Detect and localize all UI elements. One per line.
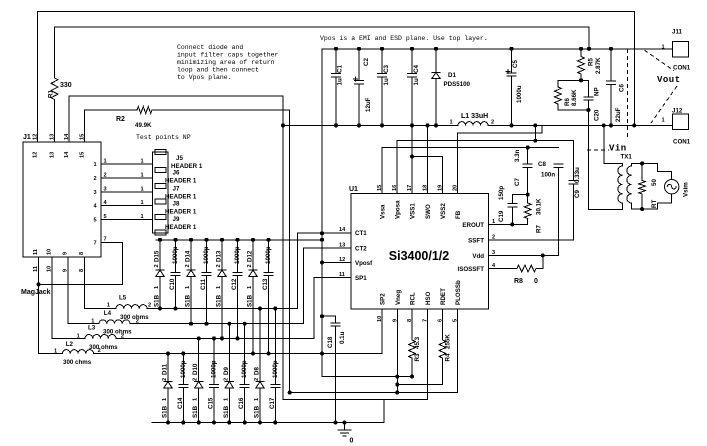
wire R2 down corridor to PLOSSb row <box>152 110 290 393</box>
svg-text:HEADER 1: HEADER 1 <box>165 224 197 231</box>
svg-text:1: 1 <box>94 162 97 168</box>
note: connect diode text <box>177 44 279 81</box>
wire switch node bus <box>283 124 458 126</box>
svg-text:2: 2 <box>193 378 199 381</box>
svg-text:14: 14 <box>339 227 346 233</box>
capacitor C15 1000p <box>208 338 219 422</box>
resistor RT 50 <box>639 163 658 209</box>
svg-text:HSO: HSO <box>425 291 432 305</box>
svg-text:0: 0 <box>534 278 538 285</box>
svg-text:Si3400/1/2: Si3400/1/2 <box>389 249 450 263</box>
capacitor C16 1000p <box>238 324 249 423</box>
wire TX1 primary bottom <box>588 203 622 210</box>
svg-text:R6: R6 <box>564 98 571 106</box>
connector J5 HEADER 1 <box>153 150 203 234</box>
svg-text:1: 1 <box>450 120 453 126</box>
wire R5 bottom node <box>558 79 589 81</box>
wire J1 pin 4 to header <box>101 205 153 207</box>
svg-text:1: 1 <box>77 334 80 340</box>
diode D13 S1B <box>216 240 227 339</box>
inductor L4 300 ohms <box>68 257 149 325</box>
svg-text:C20: C20 <box>594 109 601 121</box>
wire J1 pin 3 to header <box>101 191 153 193</box>
wire J1 pin 1 to header <box>101 163 153 165</box>
svg-text:C6: C6 <box>619 84 626 92</box>
capacitor C1 1u <box>332 49 344 126</box>
svg-text:HEADER 1: HEADER 1 <box>165 209 197 216</box>
capacitor C14 1000p <box>177 354 188 423</box>
node L3 line taps <box>197 336 201 340</box>
svg-text:S1B: S1B <box>162 405 169 418</box>
svg-text:2: 2 <box>185 264 191 267</box>
svg-text:9: 9 <box>63 252 69 255</box>
resistor R7 30.1K <box>524 195 542 233</box>
wire diode top row lower bus <box>147 308 298 310</box>
svg-text:30.1K: 30.1K <box>536 198 543 215</box>
svg-text:TX1: TX1 <box>621 154 633 161</box>
svg-text:1: 1 <box>162 398 168 401</box>
svg-text:300 ohms: 300 ohms <box>89 344 118 351</box>
svg-text:14: 14 <box>64 151 70 158</box>
svg-text:100n: 100n <box>541 172 555 179</box>
svg-text:1: 1 <box>141 214 144 220</box>
svg-text:NP: NP <box>594 87 601 96</box>
wire J1 pin14 down corridor to HSO <box>69 96 428 400</box>
svg-text:R1: R1 <box>48 90 55 98</box>
svg-text:12uF: 12uF <box>365 97 372 112</box>
svg-text:J7: J7 <box>173 186 180 193</box>
svg-text:C4: C4 <box>413 65 420 73</box>
wire diode bottom row upper bus (SP2) <box>94 353 383 355</box>
inductor L5 300 ohms <box>85 257 152 309</box>
svg-text:U1: U1 <box>349 186 358 193</box>
connector J12 CON1 <box>662 108 691 146</box>
svg-text:PDS5100: PDS5100 <box>444 81 471 88</box>
svg-text:C7: C7 <box>514 178 521 186</box>
svg-text:2: 2 <box>491 120 494 126</box>
capacitor C8 100n <box>538 161 563 255</box>
op-amp U1 Si3400/1/2 <box>339 185 496 322</box>
svg-text:J6: J6 <box>173 170 180 177</box>
svg-text:SWO: SWO <box>425 204 432 219</box>
wire ground bus <box>152 400 384 423</box>
svg-text:150p: 150p <box>498 186 505 200</box>
svg-text:1: 1 <box>141 159 144 165</box>
svg-text:13: 13 <box>50 152 56 158</box>
capacitor C6 22uF <box>607 49 626 126</box>
diode D12 S1B <box>247 240 258 354</box>
wire EROUT pin1 <box>489 223 528 225</box>
svg-text:1000p: 1000p <box>180 360 187 378</box>
connector J1 MagJack <box>23 133 101 272</box>
svg-text:300 chms: 300 chms <box>63 359 92 366</box>
svg-text:1: 1 <box>193 398 199 401</box>
svg-text:1000p: 1000p <box>203 246 210 264</box>
inductor L3 300 ohms <box>52 257 132 340</box>
capacitor C13 1000p <box>262 240 273 354</box>
svg-text:1000p: 1000p <box>234 246 241 264</box>
connector J9 HEADER 1 <box>155 214 197 231</box>
svg-text:MagJack: MagJack <box>21 289 51 296</box>
wire PLOSSb row <box>290 392 458 394</box>
wire HSO stub <box>427 309 429 400</box>
capacitor C5 1000u <box>506 49 523 126</box>
svg-text:0.33u: 0.33u <box>574 167 581 183</box>
wire Vneg row extension to R3 <box>397 376 412 378</box>
svg-text:D8: D8 <box>254 367 261 375</box>
svg-text:1: 1 <box>91 319 94 325</box>
svg-text:8.66K: 8.66K <box>571 89 578 106</box>
capacitor C3 1u <box>378 49 391 126</box>
svg-text:C15: C15 <box>208 397 215 409</box>
svg-text:45.3: 45.3 <box>414 336 421 349</box>
svg-text:Vout: Vout <box>657 75 681 85</box>
diode D8 S1B <box>254 309 265 423</box>
svg-text:1000p: 1000p <box>211 360 218 378</box>
wire TX1 secondary top <box>632 163 658 166</box>
svg-text:J9: J9 <box>173 216 180 223</box>
resistor R6 8.66K <box>555 80 578 110</box>
capacitor C18 0.1u <box>327 316 346 422</box>
svg-text:5: 5 <box>104 214 107 220</box>
svg-text:2: 2 <box>148 303 151 309</box>
svg-text:Vneg: Vneg <box>395 290 402 305</box>
svg-text:2: 2 <box>94 176 97 182</box>
svg-text:PLOSSb: PLOSSb <box>455 280 462 305</box>
svg-text:L5: L5 <box>119 295 127 302</box>
wire L4 line to CT2 riser <box>130 323 304 325</box>
connector J6 HEADER 1 <box>155 167 197 184</box>
header J9 bottom pin pad <box>155 230 166 235</box>
wire Vpos vertical to Vposf <box>322 49 397 377</box>
svg-text:2: 2 <box>216 264 222 267</box>
svg-text:C16: C16 <box>238 397 245 409</box>
svg-text:RCL: RCL <box>410 292 417 305</box>
connector J8 HEADER 1 <box>155 199 197 216</box>
wire Vneg down to PLOSSb row <box>396 377 398 393</box>
svg-text:2: 2 <box>247 264 253 267</box>
svg-text:2: 2 <box>254 378 260 381</box>
svg-text:C3: C3 <box>383 65 390 73</box>
svg-text:1: 1 <box>662 118 665 124</box>
svg-text:1: 1 <box>104 159 107 165</box>
svg-text:S1B: S1B <box>154 294 161 307</box>
svg-text:J11: J11 <box>672 29 683 36</box>
svg-text:2: 2 <box>223 378 229 381</box>
svg-text:Vin: Vin <box>609 144 627 154</box>
wire TX1 secondary bottom <box>632 203 658 209</box>
svg-text:1000p: 1000p <box>272 360 279 378</box>
capacitor C19 150p <box>498 186 528 225</box>
wire MagJack branch <box>39 283 123 285</box>
svg-text:1000p: 1000p <box>172 246 179 264</box>
capacitor C2 12uF <box>353 49 372 126</box>
node MagJack <box>37 282 41 286</box>
svg-text:0.1u: 0.1u <box>339 331 346 344</box>
wire SP2 pin10 <box>381 309 383 354</box>
svg-text:7: 7 <box>423 319 429 322</box>
svg-text:R7: R7 <box>536 225 543 233</box>
svg-text:1000u: 1000u <box>516 85 523 103</box>
diode D15 S1B <box>154 240 165 309</box>
wire VSS1 pin17 <box>411 125 413 193</box>
capacitor C9 0.33u <box>569 167 581 240</box>
svg-text:50: 50 <box>651 179 658 186</box>
svg-text:J5: J5 <box>176 155 183 162</box>
net label Vout with dashed pointers <box>645 50 681 123</box>
svg-text:L2: L2 <box>66 341 74 348</box>
svg-text:minimizing area of return: minimizing area of return <box>177 59 275 66</box>
ground 0 <box>338 421 354 445</box>
svg-text:EROUT: EROUT <box>462 222 484 229</box>
svg-text:11: 11 <box>33 249 39 255</box>
svg-text:22uF: 22uF <box>615 107 622 122</box>
svg-text:Vssa: Vssa <box>380 204 387 219</box>
svg-text:1: 1 <box>141 173 144 179</box>
svg-text:1: 1 <box>216 286 222 289</box>
wire Vposf pin12 <box>322 262 351 264</box>
connector J11 CON1 <box>662 29 691 72</box>
capacitor C11 1000p <box>200 240 211 324</box>
svg-text:10: 10 <box>47 249 53 255</box>
wire SSFT pin2 <box>489 239 574 241</box>
wire L1 out to J12 <box>488 124 672 126</box>
svg-text:L1 33uH: L1 33uH <box>461 113 488 120</box>
svg-text:D12: D12 <box>247 250 254 262</box>
svg-text:49.9K: 49.9K <box>135 122 152 129</box>
svg-text:12: 12 <box>33 152 39 158</box>
capacitor C10 1000p <box>169 240 180 309</box>
wire Vposa pin16 <box>397 141 573 194</box>
capacitor C17 1000p <box>269 309 280 423</box>
svg-text:1: 1 <box>223 398 229 401</box>
svg-text:R3: R3 <box>414 353 421 361</box>
wire J1 pin7 down to MagJack row <box>101 243 123 285</box>
svg-text:D15: D15 <box>154 250 161 262</box>
svg-text:C9: C9 <box>574 190 581 198</box>
svg-text:1: 1 <box>141 186 144 192</box>
svg-text:C8: C8 <box>538 161 546 168</box>
connector J7 HEADER 1 <box>155 183 197 200</box>
svg-text:1: 1 <box>247 286 253 289</box>
svg-text:C17: C17 <box>269 397 276 409</box>
svg-text:4: 4 <box>94 204 98 210</box>
diode D11 S1B <box>162 354 173 423</box>
svg-text:Vposa: Vposa <box>395 200 402 219</box>
svg-text:D14: D14 <box>185 250 192 262</box>
svg-text:C10: C10 <box>169 278 176 290</box>
svg-text:1: 1 <box>141 200 144 206</box>
svg-text:D13: D13 <box>216 250 223 262</box>
svg-text:CON1: CON1 <box>673 139 691 146</box>
svg-text:R8: R8 <box>514 278 523 285</box>
wire J1 pin 5 to header <box>101 219 153 221</box>
svg-text:S1B: S1B <box>192 405 199 418</box>
diode D14 S1B <box>185 240 196 324</box>
svg-text:L4: L4 <box>104 310 112 317</box>
wire SP1 pin11 from line A <box>314 278 351 339</box>
svg-text:1u: 1u <box>337 78 344 85</box>
wire PLOSSb stub <box>457 309 459 393</box>
wire VSS2 pin19 <box>412 157 443 194</box>
wire R6/C20 bottom tie <box>558 109 589 111</box>
capacitor C20 NP <box>584 80 601 121</box>
svg-text:D1: D1 <box>448 72 456 79</box>
svg-text:S1B: S1B <box>223 405 230 418</box>
svg-text:2.87K: 2.87K <box>595 57 602 74</box>
svg-text:HEADER 1: HEADER 1 <box>165 178 197 185</box>
svg-text:7: 7 <box>104 237 107 243</box>
svg-text:C18: C18 <box>327 336 334 348</box>
svg-text:S1B: S1B <box>247 294 254 307</box>
svg-text:1: 1 <box>107 303 110 309</box>
net label Vin with dashed pointer <box>587 49 628 154</box>
svg-text:SP2: SP2 <box>380 293 387 305</box>
svg-text:2: 2 <box>162 378 168 381</box>
svg-text:300 ohms: 300 ohms <box>103 329 132 336</box>
svg-text:1000p: 1000p <box>241 360 248 378</box>
svg-text:D11: D11 <box>162 363 169 375</box>
svg-text:Vsim: Vsim <box>683 182 690 197</box>
wire diode top row upper bus <box>156 239 322 241</box>
diode D9 S1B <box>223 324 234 423</box>
wire FB pin20 <box>458 125 543 193</box>
svg-text:SSFT: SSFT <box>468 238 484 245</box>
svg-text:9: 9 <box>392 319 398 322</box>
resistor R5 2.87K <box>578 49 602 81</box>
svg-text:5: 5 <box>94 218 97 224</box>
wire Vneg stub <box>396 309 398 377</box>
transformer TX1 <box>618 154 633 204</box>
svg-text:J12: J12 <box>672 108 683 115</box>
svg-text:CT1: CT1 <box>355 230 367 237</box>
inductor L1 33uH <box>450 113 495 126</box>
svg-text:Test points NP: Test points NP <box>136 134 191 141</box>
svg-text:C19: C19 <box>498 210 505 222</box>
svg-text:J8: J8 <box>173 201 180 208</box>
svg-text:1: 1 <box>185 286 191 289</box>
svg-text:S1B: S1B <box>185 294 192 307</box>
svg-text:C5: C5 <box>512 60 519 68</box>
wire C18 tap <box>322 315 336 317</box>
svg-text:FB: FB <box>455 210 462 219</box>
svg-text:2: 2 <box>154 264 160 267</box>
svg-text:Vdd: Vdd <box>472 253 484 260</box>
resistor R4 255K <box>397 309 451 385</box>
svg-text:D10: D10 <box>192 363 199 375</box>
svg-text:Vpos is a EMI and ESD plane. U: Vpos is a EMI and ESD plane. Use top lay… <box>320 35 488 42</box>
source Vsim <box>657 163 689 209</box>
svg-text:CT2: CT2 <box>355 246 367 253</box>
resistor R8 0 <box>489 255 543 285</box>
svg-text:C2: C2 <box>363 58 370 66</box>
capacitor C7 3.3n <box>514 148 532 195</box>
svg-text:7: 7 <box>94 241 97 247</box>
svg-text:VSS2: VSS2 <box>440 203 447 219</box>
svg-text:C13: C13 <box>262 278 269 290</box>
wire SWO pin18 <box>427 125 429 193</box>
wire Vssa pin15 <box>382 148 559 194</box>
svg-text:S1B: S1B <box>216 294 223 307</box>
svg-text:255K: 255K <box>445 334 452 349</box>
svg-text:8: 8 <box>79 252 85 255</box>
svg-text:330: 330 <box>60 82 72 89</box>
svg-text:HEADER 1: HEADER 1 <box>165 194 197 201</box>
inductor L2 300 ohms <box>39 257 119 366</box>
svg-text:1: 1 <box>662 45 665 51</box>
svg-text:1u: 1u <box>383 78 390 85</box>
wire C20 node down to TX1 primary bottom <box>587 110 589 210</box>
svg-text:1: 1 <box>154 286 160 289</box>
svg-text:L3: L3 <box>88 325 96 332</box>
svg-text:3.3n: 3.3n <box>514 149 521 162</box>
svg-text:2: 2 <box>104 173 107 179</box>
svg-text:R5: R5 <box>588 58 595 66</box>
wire CT1 pin14 from diode bus <box>298 233 351 308</box>
svg-text:S1B: S1B <box>254 405 261 418</box>
svg-text:loop and then connect: loop and then connect <box>177 67 259 74</box>
svg-text:Vposf: Vposf <box>355 260 373 267</box>
svg-text:VSS1: VSS1 <box>410 203 417 219</box>
svg-text:1u: 1u <box>413 78 420 85</box>
diode D10 S1B <box>192 338 203 422</box>
svg-text:1000p: 1000p <box>265 246 272 264</box>
capacitor C4 1u <box>408 49 421 126</box>
wire J1 pin12 to J12 row (top outer) <box>38 12 635 143</box>
wire CT2 pin13 from L3 line <box>304 248 351 324</box>
svg-text:1: 1 <box>54 349 57 355</box>
svg-text:C1: C1 <box>337 65 344 73</box>
wire L3 line to SP1 riser <box>116 337 314 339</box>
wire TX1 primary top <box>604 125 623 166</box>
svg-text:C11: C11 <box>200 278 207 290</box>
diode D1 PDS5100 <box>432 49 471 126</box>
svg-text:input filter caps together: input filter caps together <box>177 52 279 59</box>
svg-text:1: 1 <box>254 398 260 401</box>
resistor R2 49.9K <box>85 107 153 142</box>
resistor R3 45.3 <box>409 309 421 377</box>
svg-text:D9: D9 <box>223 367 230 375</box>
svg-text:ISOSSFT: ISOSSFT <box>458 266 485 273</box>
svg-text:0: 0 <box>350 438 354 445</box>
svg-text:to Vpos plane.: to Vpos plane. <box>177 74 232 81</box>
resistor R1 330 <box>48 27 72 142</box>
svg-text:R2: R2 <box>116 116 125 123</box>
wire Vdd pin3 <box>489 254 559 256</box>
svg-text:C14: C14 <box>177 397 184 409</box>
svg-text:3: 3 <box>94 190 97 196</box>
svg-text:300 ohms: 300 ohms <box>120 314 149 321</box>
wire FB net tap to bus <box>534 125 536 140</box>
wire R1 to Vpos bus (second top line) <box>55 27 590 49</box>
wire J1 pin 2 to header <box>101 177 153 179</box>
svg-text:CON1: CON1 <box>673 65 691 72</box>
svg-text:RDET: RDET <box>440 288 447 305</box>
svg-text:R4: R4 <box>445 353 452 361</box>
svg-text:15: 15 <box>80 152 86 158</box>
capacitor C12 1000p <box>231 240 242 339</box>
svg-text:J1: J1 <box>23 134 31 141</box>
svg-text:C12: C12 <box>231 278 238 290</box>
svg-text:3: 3 <box>104 186 107 192</box>
wire Vpos bus top <box>322 48 672 50</box>
svg-text:SP1: SP1 <box>355 275 367 282</box>
svg-text:Connect diode and: Connect diode and <box>177 44 243 51</box>
